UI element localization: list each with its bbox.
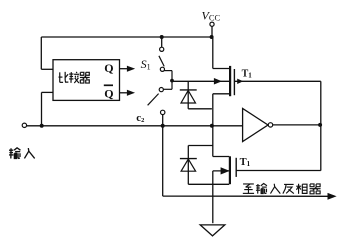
svg-text:Q: Q — [104, 87, 113, 101]
svg-text:Q: Q — [104, 61, 113, 75]
